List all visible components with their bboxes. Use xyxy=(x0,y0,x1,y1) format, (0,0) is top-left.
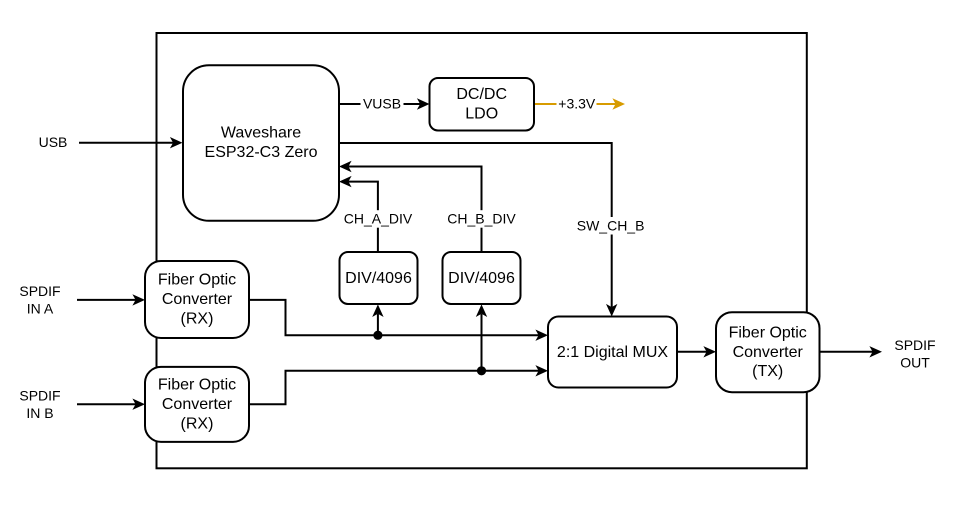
block U4 DIV/4096 B xyxy=(443,252,521,304)
wire channel B tap to DIV B xyxy=(481,314,483,371)
svg-text:(RX): (RX) xyxy=(181,310,214,327)
node junction B (dot) xyxy=(477,366,486,375)
wire CH_B_DIV (DIV B to ESP32) xyxy=(348,167,481,253)
net label CH_A_DIV xyxy=(340,210,416,228)
svg-text:Fiber Optic: Fiber Optic xyxy=(158,272,236,289)
svg-text:Converter: Converter xyxy=(733,344,804,361)
svg-text:Fiber Optic: Fiber Optic xyxy=(729,325,807,342)
node junction A (dot) xyxy=(373,331,382,340)
wire VUSB (ESP32 to DC/DC LDO) xyxy=(339,103,420,105)
block U6 Fiber Optic Converter RX A xyxy=(145,261,249,338)
label SPDIF IN B xyxy=(19,387,60,421)
svg-text:Converter: Converter xyxy=(162,291,233,308)
block U7 Fiber Optic Converter RX B xyxy=(145,367,249,442)
svg-text:DC/DC: DC/DC xyxy=(456,86,507,103)
net label CH_B_DIV xyxy=(444,210,520,228)
svg-text:SPDIF: SPDIF xyxy=(19,283,60,299)
wire USB input xyxy=(79,142,173,144)
svg-text:SPDIF: SPDIF xyxy=(894,337,935,353)
wire channel A data (RX A to MUX) xyxy=(249,300,539,335)
svg-text:USB: USB xyxy=(39,134,68,150)
svg-text:DIV/4096: DIV/4096 xyxy=(448,270,515,287)
svg-text:Converter: Converter xyxy=(162,396,233,413)
svg-text:ESP32-C3 Zero: ESP32-C3 Zero xyxy=(205,144,318,161)
svg-text:Waveshare: Waveshare xyxy=(221,125,301,142)
svg-text:IN A: IN A xyxy=(27,301,54,317)
svg-text:(RX): (RX) xyxy=(181,415,214,432)
svg-text:(TX): (TX) xyxy=(752,363,783,380)
block U2 DC/DC LDO xyxy=(430,78,535,131)
svg-text:2:1 Digital MUX: 2:1 Digital MUX xyxy=(557,344,668,361)
block U1 Waveshare ESP32-C3 Zero xyxy=(183,65,339,221)
svg-text:DIV/4096: DIV/4096 xyxy=(345,270,412,287)
svg-text:CH_B_DIV: CH_B_DIV xyxy=(447,211,516,227)
block U3 DIV/4096 A xyxy=(340,252,418,304)
svg-text:VUSB: VUSB xyxy=(363,96,401,112)
label SPDIF IN A xyxy=(19,283,60,317)
wire MUX to TX xyxy=(677,351,707,353)
wire channel B data (RX B to MUX) xyxy=(249,371,539,404)
wire +3.3V output (orange) xyxy=(534,103,616,105)
svg-text:Fiber Optic: Fiber Optic xyxy=(158,377,236,394)
svg-text:CH_A_DIV: CH_A_DIV xyxy=(344,211,413,227)
wire SW_CH_B (ESP32 to MUX select) xyxy=(339,143,612,307)
svg-text:SPDIF: SPDIF xyxy=(19,387,60,403)
label SPDIF OUT xyxy=(894,337,935,371)
wire SPDIF IN B xyxy=(77,403,136,405)
wire CH_A_DIV (DIV A to ESP32) xyxy=(348,182,378,252)
net label SW_CH_B xyxy=(575,217,647,235)
net label +3.3V xyxy=(557,95,597,113)
wire SPDIF OUT xyxy=(820,351,873,353)
net label VUSB xyxy=(361,95,404,113)
svg-text:IN B: IN B xyxy=(26,405,53,421)
svg-text:LDO: LDO xyxy=(465,105,498,122)
svg-text:SW_CH_B: SW_CH_B xyxy=(577,217,645,233)
svg-text:+3.3V: +3.3V xyxy=(558,96,596,112)
wire SPDIF IN A xyxy=(77,299,136,301)
svg-text:OUT: OUT xyxy=(900,354,930,370)
wire channel A tap to DIV A xyxy=(377,314,379,335)
block U5 2:1 Digital MUX xyxy=(548,317,677,388)
block U8 Fiber Optic Converter TX xyxy=(716,312,820,392)
enclosure border (system boundary box) xyxy=(157,33,807,468)
